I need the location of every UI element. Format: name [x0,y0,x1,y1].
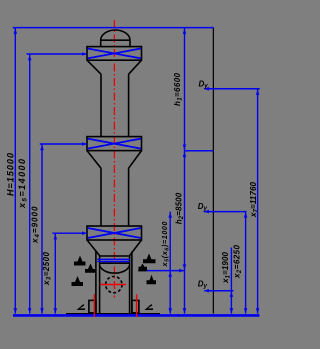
svg-text:h2=8500: h2=8500 [174,192,185,224]
tray band 2 [87,137,142,151]
leader x4 [40,143,87,145]
bottom head arc [100,266,130,274]
nozzle flag B [85,264,96,273]
arrowheads [14,29,260,314]
angle mark left [77,304,86,310]
dimension line x56 [169,212,171,314]
X brace 3 [88,228,141,238]
leader x5 [27,53,87,55]
dimension line H [14,28,16,314]
manhole circle dashed [106,276,122,292]
dimension line x4 [41,144,43,314]
svg-text:x3=2500: x3=2500 [42,251,53,286]
dimension line x3 [54,233,56,313]
X brace 2 [88,139,141,149]
tray band 3 [87,226,142,240]
cone 3 [87,240,142,256]
nozzle flag F [147,275,157,284]
down arrows at baseline [14,308,18,313]
dimension line x7 [257,89,259,314]
right arrow vessel leader [179,269,184,273]
up arrows below leaders [14,29,18,34]
leader D1 [204,88,259,90]
leader vessel level [147,270,185,272]
dimension line x5 [29,54,31,314]
nozzle flag E [139,264,148,271]
nozzle flag D [143,253,156,263]
down arrows above junctions [183,145,187,150]
left arrows at D leader starts [204,87,209,91]
leader h1/h2 junction [185,150,214,152]
bottom vessel [100,256,130,314]
cone 1 [87,60,142,74]
X brace 1 [88,49,141,59]
leader H top [13,27,214,29]
dome head [101,30,130,47]
skirt support [96,252,132,314]
svg-text:H=15000: H=15000 [6,153,16,196]
leader D2 [204,211,247,213]
extension line right (black) [212,28,214,314]
dimension line x2 [245,212,247,314]
tray band 1 [87,47,142,61]
dimension line h (right of column) [184,28,186,314]
wire black leader segment [138,270,147,272]
cone 2 [87,151,142,169]
right arrows at band edges [82,52,87,56]
anchor bolt right [136,294,138,317]
svg-text:x1=1900: x1=1900 [221,251,232,284]
leader x3 [52,232,86,234]
anchor bolt left [93,294,95,317]
angle mark right [145,304,154,310]
shell 1 [101,74,129,136]
node centerline [113,20,115,298]
nozzle flag A [74,256,86,266]
wire baseline blue [13,314,260,317]
base plate left [89,300,96,312]
leader D3 [204,290,233,292]
wire ground baseline black [66,313,160,315]
svg-text:x2=6250: x2=6250 [233,244,244,279]
base plate right [132,300,139,312]
dimension line x1 [230,248,232,314]
nozzle flag C [72,276,84,286]
manhole red cross [100,284,126,286]
shell 2 [101,168,129,226]
liquid level lines [97,259,129,261]
